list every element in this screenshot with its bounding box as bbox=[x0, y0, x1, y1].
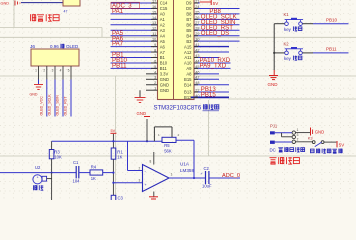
svg-text:B7: B7 bbox=[186, 17, 192, 22]
svg-text:3: 3 bbox=[139, 179, 141, 183]
svg-text:B8: B8 bbox=[186, 12, 192, 17]
svg-text:5: 5 bbox=[68, 69, 70, 73]
svg-text:PB11: PB11 bbox=[326, 47, 337, 52]
svg-text:A8: A8 bbox=[186, 72, 192, 77]
svg-text:A5: A5 bbox=[160, 39, 166, 44]
svg-text:A1: A1 bbox=[160, 17, 166, 22]
svg-text:GND: GND bbox=[1, 2, 10, 6]
svg-text:GND: GND bbox=[160, 88, 169, 93]
svg-text:B4: B4 bbox=[186, 33, 192, 38]
svg-text:104: 104 bbox=[73, 179, 81, 184]
svg-text:A0: A0 bbox=[160, 12, 166, 17]
svg-text:PA7: PA7 bbox=[112, 41, 124, 48]
svg-text:R5: R5 bbox=[164, 143, 170, 148]
svg-text:B1: B1 bbox=[160, 55, 166, 60]
svg-text:GND: GND bbox=[315, 129, 325, 134]
svg-text:OLED_DS: OLED_DS bbox=[201, 30, 229, 37]
svg-text:8: 8 bbox=[150, 160, 152, 164]
svg-text:10K: 10K bbox=[54, 155, 62, 160]
svg-text:DC: DC bbox=[270, 147, 276, 152]
svg-text:C2: C2 bbox=[204, 166, 210, 171]
svg-text:3: 3 bbox=[297, 133, 299, 137]
svg-text:1: 1 bbox=[35, 69, 37, 73]
svg-text:C15: C15 bbox=[160, 6, 168, 11]
svg-text:key: key bbox=[284, 56, 292, 61]
svg-text:2: 2 bbox=[139, 167, 141, 171]
svg-text:OLED_SDIN: OLED_SDIN bbox=[56, 95, 60, 116]
svg-text:5V: 5V bbox=[111, 129, 116, 133]
svg-text:U1A: U1A bbox=[180, 162, 190, 167]
svg-text:B6: B6 bbox=[186, 23, 192, 28]
svg-text:A6: A6 bbox=[160, 44, 166, 49]
svg-text:A11: A11 bbox=[184, 55, 192, 60]
svg-text:+: + bbox=[145, 183, 147, 187]
svg-text:B11: B11 bbox=[160, 66, 168, 71]
svg-text:D0: D0 bbox=[186, 6, 192, 11]
svg-text:C14: C14 bbox=[160, 1, 168, 6]
svg-text:0.96: 0.96 bbox=[50, 44, 59, 49]
svg-text:GND: GND bbox=[160, 77, 169, 82]
svg-text:+: + bbox=[201, 172, 203, 176]
svg-text:K2: K2 bbox=[284, 41, 290, 46]
svg-text:PJ1: PJ1 bbox=[270, 123, 278, 128]
svg-text:A10: A10 bbox=[184, 61, 192, 66]
svg-text:3: 3 bbox=[52, 69, 54, 73]
svg-text:OLED_SCLK: OLED_SCLK bbox=[48, 94, 52, 116]
svg-text:B3: B3 bbox=[186, 39, 192, 44]
svg-text:5V: 5V bbox=[339, 143, 344, 148]
svg-text:+: + bbox=[37, 176, 39, 180]
svg-text:D9: D9 bbox=[186, 1, 192, 6]
svg-text:PA1: PA1 bbox=[112, 8, 124, 15]
svg-text:3.3V: 3.3V bbox=[160, 72, 169, 77]
svg-text:A2: A2 bbox=[160, 23, 166, 28]
svg-text:B14: B14 bbox=[184, 82, 192, 87]
svg-text:56K: 56K bbox=[164, 148, 172, 153]
svg-text:GND: GND bbox=[30, 93, 38, 97]
svg-text:U2: U2 bbox=[35, 165, 41, 170]
svg-text:LM358: LM358 bbox=[180, 168, 194, 173]
svg-text:B12: B12 bbox=[184, 95, 192, 100]
svg-text:STM32F103C8T6: STM32F103C8T6 bbox=[154, 106, 202, 112]
svg-text:GND: GND bbox=[137, 111, 147, 116]
svg-text:A7: A7 bbox=[160, 50, 166, 55]
svg-text:OLED_RST: OLED_RST bbox=[64, 96, 68, 116]
svg-text:GND: GND bbox=[160, 82, 169, 87]
svg-text:PA9_TXD: PA9_TXD bbox=[200, 63, 227, 70]
svg-text:key: key bbox=[284, 27, 292, 32]
svg-text:B10: B10 bbox=[160, 61, 168, 66]
svg-text:1: 1 bbox=[158, 133, 160, 137]
svg-text:GND: GND bbox=[268, 82, 279, 87]
svg-text:10uF: 10uF bbox=[202, 184, 212, 189]
svg-text:47: 47 bbox=[64, 10, 68, 14]
svg-text:ADC_0: ADC_0 bbox=[222, 173, 240, 179]
svg-text:A9: A9 bbox=[186, 66, 192, 71]
svg-text:B13: B13 bbox=[184, 90, 192, 95]
svg-text:C1: C1 bbox=[73, 160, 79, 165]
svg-text:1: 1 bbox=[171, 173, 173, 177]
svg-text:A3: A3 bbox=[160, 28, 166, 33]
svg-text:1: 1 bbox=[297, 128, 299, 132]
svg-text:A15: A15 bbox=[184, 44, 192, 49]
svg-text:A12: A12 bbox=[184, 50, 192, 55]
svg-text:K3: K3 bbox=[308, 136, 313, 141]
svg-text:2: 2 bbox=[43, 69, 45, 73]
svg-text:A4: A4 bbox=[160, 33, 166, 38]
svg-text:PB11: PB11 bbox=[112, 63, 127, 70]
svg-text:PB10: PB10 bbox=[326, 18, 338, 23]
svg-text:OLED: OLED bbox=[66, 44, 79, 49]
svg-text:PB15: PB15 bbox=[201, 92, 217, 99]
svg-text:R4: R4 bbox=[91, 164, 97, 169]
svg-text:4: 4 bbox=[60, 69, 62, 73]
svg-text:-: - bbox=[145, 169, 147, 174]
svg-text:B5: B5 bbox=[186, 28, 192, 33]
svg-text:OLED_VCC: OLED_VCC bbox=[39, 96, 43, 116]
svg-text:K1: K1 bbox=[284, 12, 290, 17]
svg-text:1K: 1K bbox=[91, 176, 96, 181]
svg-text:5V: 5V bbox=[213, 1, 219, 6]
svg-text:C3: C3 bbox=[118, 196, 124, 201]
svg-text:2: 2 bbox=[297, 137, 299, 141]
svg-text:1K: 1K bbox=[117, 155, 122, 160]
svg-text:B15: B15 bbox=[184, 77, 192, 82]
